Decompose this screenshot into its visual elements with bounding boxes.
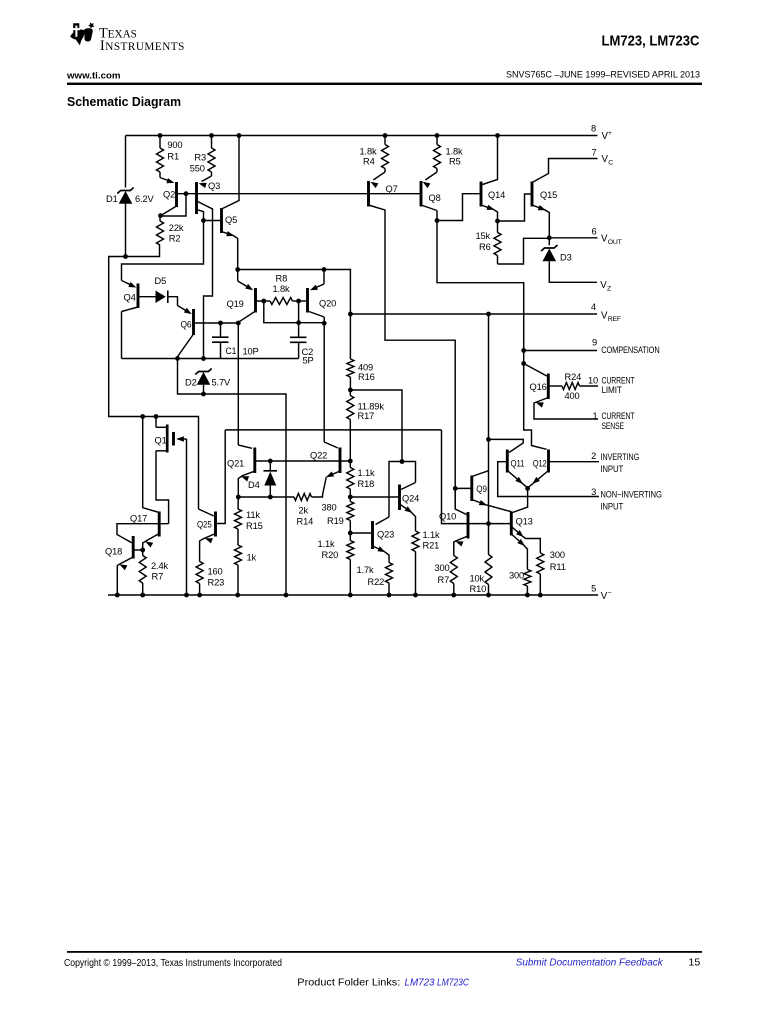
node Q13 base junction [486, 521, 491, 526]
node Q20 base [296, 299, 301, 304]
node left bus Q17 [140, 414, 145, 419]
svg-text:C1: C1 [226, 346, 237, 356]
svg-text:LM723: LM723 [405, 976, 435, 988]
wire Vref drop to Q9 and Q13 [488, 314, 490, 524]
transistor Q8 [421, 181, 441, 207]
zener D3 [541, 238, 557, 261]
transistor Q25 [197, 512, 216, 537]
svg-text:160: 160 [208, 567, 223, 577]
transistor Q16 [530, 374, 549, 400]
resistor R20 1.1k [347, 533, 354, 595]
transistor Q3 [197, 181, 221, 214]
wire Q8 collector to Q14 base [437, 194, 481, 221]
wire Q19 emitter [238, 270, 254, 291]
wire Q17 collector [143, 417, 160, 513]
transistor Q24 [400, 485, 420, 511]
wire Q3 collector 1 to D2 [197, 201, 213, 359]
node Q11-Q12 emitter junction [525, 486, 530, 491]
wire Q6 collector [178, 334, 194, 359]
node Q9 base junction [453, 486, 458, 491]
svg-text:D4: D4 [248, 480, 260, 490]
svg-text:409: 409 [358, 363, 373, 373]
svg-text:7: 7 [592, 147, 597, 157]
svg-text:LM723C: LM723C [437, 976, 469, 988]
svg-text:R10: R10 [470, 584, 487, 594]
svg-text:Q19: Q19 [227, 299, 244, 309]
svg-text:Q20: Q20 [319, 299, 336, 309]
wire Q13 emitter 1 [511, 534, 527, 570]
svg-text:R14: R14 [297, 517, 314, 527]
node D4 bottom [268, 495, 273, 500]
wire left rail upper [125, 136, 127, 188]
label 11.89k R17 [358, 402, 385, 422]
diode D5 [155, 276, 168, 303]
node Q23-Q24 collector junction [400, 459, 405, 464]
svg-text:15k: 15k [476, 231, 491, 241]
label 1.1k R18 [358, 468, 375, 489]
transistor Q23 [373, 521, 395, 549]
label 160 R23 [208, 567, 225, 588]
svg-text:4: 4 [591, 302, 596, 312]
node Q20 emitter tap [322, 267, 327, 272]
TI logo mark [70, 22, 94, 45]
svg-text:SNVS765C –JUNE 1999–REVISED AP: SNVS765C –JUNE 1999–REVISED APRIL 2013 [506, 69, 700, 79]
svg-text:Q17: Q17 [130, 514, 147, 524]
wire R1 to Q2 emitter [160, 178, 175, 184]
svg-text:R7: R7 [152, 572, 164, 582]
svg-text:R17: R17 [358, 411, 375, 421]
svg-text:5: 5 [591, 584, 596, 594]
label 10P [243, 347, 259, 357]
svg-text:15: 15 [689, 957, 701, 969]
document title LM723 [602, 32, 700, 49]
svg-text:R6: R6 [479, 242, 491, 252]
node Q5 emitter junction [235, 267, 240, 272]
resistor R14 2k [294, 494, 312, 501]
pin 4 VREF label [591, 302, 621, 323]
pin 7 VC label [592, 147, 614, 166]
wire Q16 base lead [548, 385, 562, 387]
zener D1 6.2V [117, 188, 133, 204]
wire Q4 base lead [138, 296, 156, 298]
pin 10 CURRENT LIMIT label [588, 375, 635, 395]
node C2 junction [296, 320, 301, 325]
node rail R23 [197, 593, 202, 598]
pin 5 V- label [591, 584, 611, 602]
svg-text:R15: R15 [246, 521, 263, 531]
svg-text:Copyright © 1999–2013, Texas I: Copyright © 1999–2013, Texas Instruments… [64, 958, 282, 969]
wire Q5 emitter [222, 231, 238, 269]
svg-text:22k: 22k [169, 223, 184, 233]
svg-text:Q25: Q25 [197, 520, 212, 530]
wire pin 9 compensation [524, 350, 597, 352]
label 5.7V [212, 378, 231, 388]
wire Q16 collector [524, 364, 547, 377]
wire Q14 emitter to Q15 base [498, 194, 533, 221]
label 10k R10 [470, 574, 487, 595]
svg-text:REF: REF [608, 316, 621, 323]
label 1k [247, 553, 257, 563]
resistor R2 22k [157, 216, 164, 245]
svg-text:Q7: Q7 [386, 184, 398, 194]
transistor Q13 [511, 512, 532, 536]
node rail Q18 emitter [115, 593, 120, 598]
node Q20 collector junction [322, 321, 327, 326]
wire D1 anode lead [125, 204, 127, 257]
wire Q16 emitter pin 1 [534, 398, 598, 420]
label D2 [185, 378, 197, 388]
resistor R5 1.8k [434, 136, 441, 173]
label R24 [565, 372, 582, 382]
svg-text:8: 8 [591, 124, 596, 134]
node Q14 emitter junction [495, 219, 500, 224]
svg-text:1.1k: 1.1k [358, 468, 375, 478]
svg-text:1k: 1k [247, 553, 257, 563]
svg-text:INPUT: INPUT [600, 502, 623, 512]
wire Q19 collector [238, 311, 255, 322]
wire emitter bus to R16 [238, 270, 351, 315]
jfet Q1 [155, 417, 174, 453]
wire Q18 emitter [117, 557, 133, 595]
transistor Q14 [481, 182, 505, 207]
wire Q3 collector 2 [197, 209, 204, 220]
svg-text:1: 1 [593, 411, 598, 421]
svg-text:Q6: Q6 [181, 320, 192, 330]
svg-text:R5: R5 [449, 157, 461, 167]
svg-text:1.8k: 1.8k [273, 284, 290, 294]
svg-text:11.89k: 11.89k [358, 402, 385, 412]
transistor Q19 [227, 288, 256, 313]
wire Q10 emitter [454, 536, 468, 556]
node D4 top [268, 459, 273, 464]
node D2 anode junction [201, 392, 206, 397]
wire V- bottom rail [108, 594, 598, 596]
node top-rail R1 [158, 133, 163, 138]
transistor Q17 [130, 512, 159, 537]
wire Q14 emitter [481, 205, 498, 221]
svg-text:−: − [607, 590, 611, 597]
node rail R15 [235, 593, 240, 598]
wire R14 to Q22 emitter [312, 471, 341, 497]
svg-text:Product Folder Links:: Product Folder Links: [297, 976, 400, 988]
footer page number [689, 957, 701, 969]
wire Q8 collector [421, 205, 437, 221]
wire base-collector tie bus [264, 301, 324, 323]
svg-text:R23: R23 [208, 578, 225, 588]
wire Q12 emitter [528, 471, 549, 488]
svg-text:9: 9 [592, 338, 597, 348]
label 300 R7b [435, 563, 450, 585]
svg-text:SENSE: SENSE [602, 421, 624, 431]
svg-text:2k: 2k [299, 506, 309, 516]
label D1 [106, 194, 118, 204]
svg-text:Q23: Q23 [377, 530, 394, 540]
label 380 R19 [322, 503, 344, 527]
footer copyright [64, 958, 282, 969]
pin 9 COMPENSATION label [592, 338, 660, 355]
svg-text:Q13: Q13 [516, 517, 533, 527]
svg-text:Q15: Q15 [540, 190, 557, 200]
resistor R10 10k [485, 524, 492, 595]
pin VZ label [600, 280, 611, 293]
svg-text:3: 3 [591, 487, 596, 497]
wire R6 to Vout [498, 238, 550, 264]
svg-text:R2: R2 [169, 234, 181, 244]
wire Q18 base lead [133, 549, 143, 551]
node top-rail Q5 collector [237, 133, 242, 138]
wire Q19 base lead [256, 300, 264, 302]
section heading [67, 95, 181, 109]
svg-text:1.1k: 1.1k [318, 539, 335, 549]
svg-text:11k: 11k [246, 510, 260, 520]
wire Q20 emitter [310, 270, 324, 291]
transistor Q20 [308, 288, 337, 313]
node compensation junction [521, 348, 526, 353]
svg-text:R21: R21 [423, 541, 440, 551]
svg-text:www.ti.com: www.ti.com [66, 71, 121, 82]
svg-text:10P: 10P [243, 347, 259, 357]
svg-text:6.2V: 6.2V [135, 194, 154, 204]
resistor R16 409 [347, 314, 354, 390]
wire Q11 collector [489, 439, 524, 452]
pin 8 V+ label [591, 124, 612, 142]
node D1 bottom rail [123, 254, 128, 259]
transistor Q9 [472, 476, 487, 502]
wire Q20 base lead [299, 300, 308, 302]
capacitor C1 10P [212, 323, 229, 359]
svg-text:Q12: Q12 [533, 459, 547, 469]
resistor R17 11.89k [347, 390, 354, 461]
svg-text:Q2: Q2 [163, 190, 175, 200]
wire D4 bottom bus [238, 496, 294, 498]
svg-text:INPUT: INPUT [600, 464, 623, 474]
node rail R10 [486, 593, 491, 598]
svg-text:2.4k: 2.4k [151, 561, 168, 571]
svg-text:D1: D1 [106, 194, 118, 204]
zener D2 5.7V [195, 369, 211, 385]
wire Q17 emitter [143, 534, 160, 551]
label C1 [226, 346, 237, 356]
svg-text:R24: R24 [565, 372, 582, 382]
wire Q2 base lead [177, 193, 187, 195]
svg-text:380: 380 [322, 503, 337, 513]
resistor R6 15k [494, 221, 501, 264]
label 6.2V [135, 194, 154, 204]
svg-text:Z: Z [607, 285, 611, 292]
pin 3 NON-INVERTING INPUT label [591, 487, 662, 512]
header wordmark [99, 25, 185, 54]
svg-text:R8: R8 [276, 274, 288, 284]
resistor R8 1.8k [264, 298, 299, 305]
svg-text:10: 10 [588, 375, 598, 385]
svg-text:CURRENT: CURRENT [602, 411, 635, 421]
node Q5 base junction [201, 218, 206, 223]
wire Q2 collector [161, 206, 177, 216]
wire Q5 collector [222, 136, 240, 210]
wire Q25 collector [199, 509, 214, 516]
node Q19 collector junction [236, 321, 241, 326]
transistor Q10 [439, 512, 468, 539]
svg-text:R4: R4 [363, 157, 375, 167]
wire Q9 emitter [472, 500, 512, 512]
label C2 [302, 347, 314, 357]
svg-text:R7: R7 [438, 575, 450, 585]
wire Q21 base bus [255, 460, 350, 462]
svg-text:Q3: Q3 [208, 181, 220, 191]
resistor R23 160 [196, 562, 203, 596]
svg-text:Q11: Q11 [511, 459, 525, 469]
wire D2 bus [122, 358, 299, 360]
label 22k R2 [169, 223, 184, 244]
resistor R22 1.7k [386, 563, 393, 596]
svg-text:Q14: Q14 [488, 190, 505, 200]
transistor Q15 [532, 182, 557, 207]
resistor R1 900 [157, 136, 164, 178]
wire Q20 collector [308, 311, 325, 323]
svg-text:Q18: Q18 [105, 547, 122, 557]
node left bus Q1 [154, 414, 159, 419]
node Q11 collector junction [486, 437, 491, 442]
node rail R20 [348, 593, 353, 598]
wire pin 4 Vref [350, 313, 597, 315]
svg-text:2: 2 [591, 451, 596, 461]
svg-text:Submit Documentation Feedback: Submit Documentation Feedback [516, 958, 664, 969]
resistor R3 550 [208, 136, 215, 177]
label D4 [248, 480, 260, 490]
transistor Q21 [227, 448, 255, 474]
node Q6 collector junction [175, 356, 180, 361]
wire Q23 collector [376, 517, 390, 525]
wire ground branch via D2 [178, 359, 287, 596]
svg-text:Q9: Q9 [476, 484, 487, 494]
node rail D2 branch [284, 593, 289, 598]
wire R4 to Q7 emitter [371, 172, 386, 188]
label D3 [560, 253, 572, 263]
wire Q5 base lead [204, 220, 222, 222]
svg-text:C: C [608, 160, 613, 167]
diode D4 [264, 461, 278, 497]
svg-text:CURRENT: CURRENT [602, 375, 635, 385]
svg-text:1.7k: 1.7k [357, 565, 374, 575]
svg-text:1.1k: 1.1k [423, 530, 440, 540]
node R15 top [236, 495, 241, 500]
resistor R21 1.1k [412, 531, 419, 595]
wire Q15 collector pin7 [532, 159, 598, 183]
label 900 R1 [167, 140, 182, 161]
transistor Q12 [533, 450, 549, 473]
label 2.4k R7 [151, 561, 168, 582]
transistor Q22 [310, 448, 340, 474]
node rail R7b [451, 593, 456, 598]
wire pin Vz [549, 261, 597, 282]
transistor Q5 [222, 208, 238, 233]
svg-text:Q24: Q24 [402, 494, 419, 504]
resistor R4 1.8k [382, 136, 389, 173]
node Q16 collector junction [521, 361, 526, 366]
node Q8 collector junction [435, 218, 440, 223]
wire Q23 emitter [373, 546, 390, 563]
svg-text:R20: R20 [322, 550, 339, 560]
svg-text:INVERTING: INVERTING [600, 452, 639, 462]
wire Q13 emitter 2 [511, 527, 540, 554]
header rule [67, 83, 702, 85]
node R16-R17 junction [348, 388, 353, 393]
wire D2 anode [203, 385, 205, 394]
transistor Q6 [181, 309, 194, 335]
label 5P [303, 356, 314, 366]
wire pin 2 inverting input [549, 461, 600, 463]
svg-text:300: 300 [509, 571, 524, 581]
wire lower-left bus [109, 245, 199, 509]
node rail Q1 gate [184, 593, 189, 598]
svg-text:900: 900 [167, 140, 182, 150]
wire Q6 base lead [194, 322, 239, 324]
label 1.1k R20 [318, 539, 339, 560]
svg-text:300: 300 [550, 550, 565, 560]
label 1.7k R22 [357, 565, 385, 587]
resistor R7 2.4k [139, 550, 146, 595]
svg-text:5P: 5P [303, 356, 314, 366]
wire base rail to Q7 Q8 [186, 193, 421, 195]
wire Q20 base drop [298, 301, 300, 323]
svg-text:Q8: Q8 [429, 193, 441, 203]
svg-text:R16: R16 [358, 372, 375, 382]
label 1.8k R5 [446, 147, 463, 167]
svg-text:6: 6 [592, 227, 597, 237]
svg-text:Q16: Q16 [530, 382, 547, 392]
svg-text:OUT: OUT [608, 239, 622, 246]
node rail R11 [538, 593, 543, 598]
wire Q17 base line [117, 524, 169, 543]
wire Q23 base lead [350, 532, 372, 534]
label 11k R15 [246, 510, 263, 531]
footer rule [67, 951, 702, 953]
capacitor C2 5P [290, 323, 307, 359]
node C1 top [218, 321, 223, 326]
svg-text:Q22: Q22 [310, 451, 327, 461]
wire R5 to Q8 emitter [423, 172, 438, 188]
svg-text:D3: D3 [560, 253, 572, 263]
resistor R300 left [524, 570, 531, 596]
svg-text:5.7V: 5.7V [212, 378, 231, 388]
wire Q25 emitter [200, 534, 216, 562]
node Q2-Q3 base junction [184, 191, 189, 196]
label R8 [276, 274, 288, 284]
node D2 top [201, 356, 206, 361]
transistor Q4 [124, 284, 139, 309]
svg-text:COMPENSATION: COMPENSATION [601, 345, 659, 355]
label 1.8k [273, 284, 290, 294]
wire D5 to Q6 emitter [168, 297, 192, 314]
wire Q9 collector [472, 471, 489, 477]
svg-text:R1: R1 [167, 152, 179, 162]
wire Q21 emitter [238, 471, 255, 497]
svg-text:R19: R19 [327, 516, 344, 526]
svg-text:550: 550 [190, 164, 205, 174]
pin 6 VOUT label [592, 227, 622, 247]
node R7 top [140, 548, 145, 553]
wire collector staple [389, 462, 416, 518]
wire Q15 emitter [532, 205, 549, 238]
svg-text:1.8k: 1.8k [360, 147, 377, 157]
wire Q11 emitter [507, 471, 527, 488]
pin 2 INVERTING INPUT label [591, 451, 639, 474]
transistor Q2 [163, 182, 177, 207]
label 400 [565, 391, 580, 401]
svg-text:Q1: Q1 [155, 436, 167, 446]
wire Q9 base lead [455, 487, 472, 489]
wire Q20-Q22 link [324, 323, 338, 448]
